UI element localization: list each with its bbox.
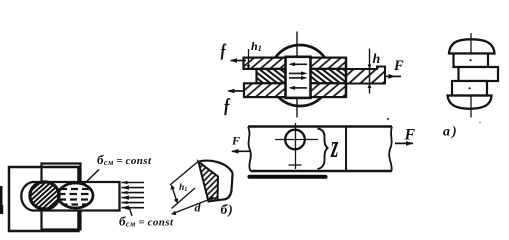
- half cylinder top arc: [198, 161, 232, 173]
- faint dot right: [479, 122, 481, 124]
- svg-text:z: z: [330, 128, 338, 165]
- dimension tick h1 top-left: [247, 49, 250, 70]
- distributed load arrow 2: [122, 185, 145, 189]
- svg-text:б): б): [221, 202, 234, 217]
- leader line to bottom sigma label: [130, 209, 133, 217]
- rivet hole: [285, 130, 305, 150]
- centerline of rivet section: [296, 32, 298, 118]
- hole horizontal centerline: [275, 139, 318, 141]
- stray dot: [387, 118, 389, 120]
- plate bottom edge: [251, 170, 393, 173]
- shank bearing arrow 1 (left): [289, 62, 308, 66]
- force arrow F right (plan): [395, 141, 414, 146]
- svg-text:d: d: [195, 201, 202, 215]
- force arrow f bottom-left: [227, 89, 245, 93]
- plate square: [9, 167, 79, 231]
- svg-text:а): а): [443, 125, 459, 140]
- rivet symbol centerline: [470, 33, 472, 118]
- cover plate edge line in plan: [345, 127, 347, 172]
- svg-text:ƒ: ƒ: [223, 94, 231, 117]
- extension line lower: [172, 188, 196, 209]
- top cover plate: [244, 58, 347, 69]
- center dot 2: [468, 87, 470, 89]
- strip with rounded end (stadium): [21, 182, 119, 211]
- svg-text:h: h: [373, 52, 381, 67]
- second plate rect: [42, 164, 81, 230]
- centerline tick below hole: [289, 164, 302, 166]
- dashed rows in right ellipse: [58, 189, 93, 205]
- svg-text:F: F: [231, 134, 240, 148]
- svg-text:h1: h1: [179, 183, 188, 193]
- svg-text:бсм = const: бсм = const: [119, 214, 174, 229]
- svg-text:F: F: [404, 127, 416, 144]
- distributed load arrow 4: [122, 195, 145, 199]
- plate top edge: [248, 125, 392, 128]
- scan smudge left edge lower: [0, 205, 3, 214]
- shank bearing arrow 3 (right): [289, 76, 308, 80]
- rivet shank: [286, 57, 311, 98]
- brace for z: [318, 129, 328, 170]
- leader line to top sigma label: [84, 170, 99, 185]
- dimension line h right: [368, 49, 372, 94]
- dimension line h1: [171, 185, 179, 204]
- bearing ellipse right (stress diagram): [58, 183, 93, 208]
- rivet top head dome: [449, 39, 495, 53]
- center dot 1: [469, 59, 471, 61]
- right edge of cover plates: [345, 58, 347, 98]
- right ellipse outline over hatch: [58, 183, 93, 208]
- distributed load arrow 5: [122, 201, 145, 204]
- distributed load arrow 6: [122, 206, 145, 210]
- hatched bearing face: [198, 162, 218, 202]
- plate right break edge: [389, 127, 392, 172]
- force arrow F right (section): [385, 74, 401, 79]
- dimension line d: [171, 196, 215, 215]
- svg-text:F: F: [393, 58, 404, 74]
- distributed load arrow 1: [122, 181, 145, 184]
- bottom cover plate: [244, 83, 346, 97]
- middle plate right extension strip: [346, 67, 385, 84]
- plate left break edge: [248, 127, 251, 172]
- plate rect 2 (offset right): [459, 67, 499, 81]
- extension line upper: [170, 162, 198, 185]
- half cylinder right edge: [218, 173, 233, 200]
- shank bearing arrow 4 (left): [289, 86, 308, 90]
- distributed load arrow 3: [122, 191, 145, 194]
- rivet section ellipse left (hatched): [30, 182, 59, 209]
- svg-text:h1: h1: [251, 39, 262, 53]
- rivet head circle: [270, 45, 331, 106]
- hole vertical centerline: [295, 123, 297, 169]
- scan smudge left edge: [0, 186, 3, 214]
- thick scan bar under plan view: [248, 175, 328, 179]
- svg-text:ƒ: ƒ: [220, 38, 228, 61]
- middle plate (between covers): [257, 69, 347, 83]
- shank bearing arrow 2 (right): [289, 71, 308, 75]
- force arrow F left (plan): [231, 149, 251, 154]
- plate rect 1: [454, 54, 489, 68]
- rivet bottom head dome: [448, 96, 492, 109]
- force arrow f top-left: [230, 58, 247, 62]
- plate rect 3: [452, 81, 487, 96]
- svg-text:бсм = const: бсм = const: [97, 152, 152, 167]
